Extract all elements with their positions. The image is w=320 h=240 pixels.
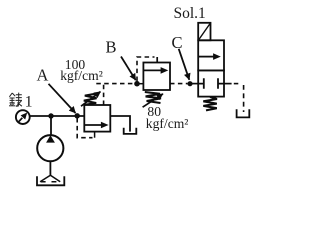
valve A drain tank: [124, 128, 137, 134]
svg-text:B: B: [106, 38, 117, 57]
valve C position 2 box: [198, 70, 224, 96]
valve C spring: [203, 97, 217, 110]
node: pump junction: [48, 113, 53, 118]
valve A adjust arrow: [81, 92, 101, 107]
wire vent to valve B: [137, 83, 143, 85]
svg-text:kgf/cm²: kgf/cm²: [146, 116, 189, 131]
pump P1: [37, 135, 63, 161]
relief valve B box: [143, 63, 170, 91]
label B arrow: [121, 57, 136, 81]
valve C outlet stub: [224, 83, 232, 85]
node: valve A inlet junction: [75, 113, 80, 118]
valve C position 1 box: [198, 40, 224, 70]
valve A outlet pipe: [110, 116, 130, 132]
valve B top stub: [156, 57, 158, 63]
valve B pilot loop (dashed): [137, 57, 155, 81]
valve C blocked port right: [218, 78, 224, 88]
suction strainer: [40, 175, 60, 182]
wire pump to tank: [49, 161, 51, 175]
node: vent junction B: [134, 81, 140, 87]
valve A pilot line (dashed): [77, 118, 92, 138]
valve A flow arrow: [85, 124, 102, 126]
node: valve C junction: [187, 81, 192, 86]
wire junction to pump: [50, 116, 52, 136]
vent line from valve A (dashed): [103, 84, 105, 105]
main supply line: [30, 115, 85, 117]
valve A spring: [84, 94, 97, 105]
solenoid coil of valve C: [198, 23, 210, 41]
tank T1: [37, 176, 64, 185]
valve C blocked port left: [198, 78, 204, 88]
valve C drain line (dashed): [234, 83, 241, 85]
label 錶 1 (gauge name): [9, 93, 22, 107]
svg-text:C: C: [172, 33, 183, 52]
valve B adjust arrow: [143, 94, 163, 107]
svg-text:Sol.1: Sol.1: [174, 5, 206, 22]
label C arrow: [179, 49, 190, 80]
svg-text:kgf/cm²: kgf/cm²: [60, 68, 103, 83]
pressure gauge: [16, 110, 30, 124]
valve C drain tank: [237, 109, 250, 117]
svg-text:1: 1: [25, 93, 33, 110]
relief valve A box: [84, 105, 110, 132]
valve B flow arrow: [144, 69, 162, 71]
valve C position 1 arrow: [199, 56, 215, 58]
pilot line B to C (dashed): [170, 83, 187, 85]
svg-text:A: A: [37, 66, 49, 85]
wire to valve C: [190, 83, 198, 85]
valve B spring: [145, 92, 161, 103]
label A arrow: [49, 84, 76, 113]
